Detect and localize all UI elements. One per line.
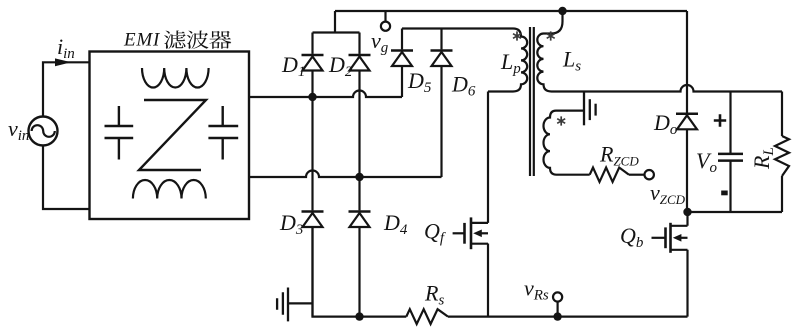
svg-text:RZCD: RZCD [599, 142, 639, 169]
svg-text:Lp: Lp [500, 49, 521, 77]
svg-text:Ls: Ls [562, 47, 581, 75]
svg-text:iin: iin [57, 34, 75, 62]
svg-text:Rs: Rs [424, 281, 444, 309]
svg-text:vin: vin [8, 116, 29, 144]
svg-text:D5: D5 [407, 68, 432, 96]
svg-text:D6: D6 [451, 72, 476, 100]
svg-text:vg: vg [371, 28, 389, 56]
svg-text:Qb: Qb [620, 223, 644, 251]
svg-text:RL: RL [749, 147, 777, 170]
svg-text:vRs: vRs [524, 276, 549, 304]
svg-text:D4: D4 [383, 210, 408, 238]
svg-text:EMI: EMI [123, 30, 161, 51]
svg-text:D3: D3 [279, 210, 303, 238]
svg-text:Qf: Qf [424, 219, 446, 247]
svg-text:vZCD: vZCD [650, 180, 686, 207]
svg-text:Do: Do [653, 110, 678, 138]
svg-text:Vo: Vo [696, 148, 717, 176]
